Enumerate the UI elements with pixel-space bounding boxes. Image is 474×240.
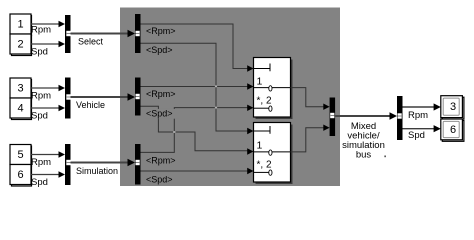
svg-text:<Rpm>: <Rpm>	[146, 155, 176, 165]
inport 4	[12, 100, 32, 120]
wire Vehicle.Rpm to switch1 input1	[141, 86, 248, 88]
svg-text:4: 4	[17, 102, 23, 114]
svg-text:Spd: Spd	[31, 111, 48, 122]
svg-text:1: 1	[257, 75, 263, 87]
svg-text:3: 3	[17, 82, 23, 94]
wire Spd to outport	[403, 128, 435, 130]
svg-text:*, 2: *, 2	[257, 160, 272, 171]
multiport switch 1 (Rpm)	[256, 60, 293, 120]
svg-text:6: 6	[17, 169, 23, 181]
inport 1	[12, 16, 32, 36]
wire Vehicle.Spd staircase to switch2 input1	[141, 106, 248, 151]
svg-text:<Rpm>: <Rpm>	[146, 26, 176, 36]
wire inport6 to bus creator	[31, 174, 59, 176]
svg-text:<Spd>: <Spd>	[146, 109, 173, 119]
inport 3	[12, 80, 32, 100]
wire switch2 output to final bus creator	[291, 128, 324, 152]
stray dot annotation	[384, 156, 386, 158]
wire Select.Spd to switch2 control	[141, 43, 248, 131]
svg-text:Spd: Spd	[31, 177, 48, 188]
svg-text:Spd: Spd	[408, 130, 425, 141]
bus wire Mixed vehicle/simulation	[335, 115, 390, 117]
wire inport5 to bus creator	[31, 154, 59, 156]
svg-text:Rpm: Rpm	[408, 110, 428, 121]
final bus creator	[330, 98, 336, 137]
label <Spd> (selector2)	[145, 109, 180, 119]
bus selector output	[397, 96, 403, 140]
wire inport1 to bus creator	[31, 23, 59, 25]
svg-text:3: 3	[450, 101, 456, 113]
wire inport2 to bus creator	[31, 43, 59, 45]
svg-text:Rpm: Rpm	[31, 25, 51, 36]
svg-text:Select: Select	[78, 36, 104, 46]
svg-text:5: 5	[17, 149, 23, 161]
svg-text:1: 1	[257, 140, 263, 152]
svg-text:Rpm: Rpm	[31, 157, 51, 168]
bus selector 1	[135, 14, 141, 53]
svg-text:*, 2: *, 2	[257, 95, 272, 106]
bus wire Simulation	[71, 162, 129, 164]
inport 2	[12, 36, 32, 56]
bus creator 3	[65, 144, 71, 185]
wire Select.Rpm to switch1 control	[141, 24, 248, 69]
svg-text:<Spd>: <Spd>	[146, 45, 173, 55]
bus selector 3	[135, 144, 141, 185]
bus selector 2	[135, 78, 141, 116]
svg-text:1: 1	[17, 18, 23, 30]
wire switch1 output to final bus creator	[291, 88, 324, 107]
outport 3	[442, 97, 464, 119]
multiport switch 2 (Spd)	[256, 125, 293, 185]
outport 6	[442, 121, 464, 142]
subsystem gray area	[120, 8, 340, 187]
wire Simulation.Spd to switch2 input2	[141, 170, 248, 172]
svg-text:6: 6	[450, 124, 456, 136]
wire Rpm to outport	[403, 106, 435, 108]
svg-text:Spd: Spd	[31, 47, 48, 58]
svg-text:2: 2	[17, 38, 23, 50]
wire crossing gaps	[215, 85, 217, 87]
inport 5	[12, 146, 32, 166]
bus creator 2	[65, 78, 71, 119]
bus wire Select	[71, 33, 129, 35]
wire inport3 to bus creator	[31, 87, 59, 89]
svg-text:Rpm: Rpm	[31, 91, 51, 102]
wire inport4 to bus creator	[31, 107, 59, 109]
wire Simulation.Rpm up to switch1 input2	[141, 108, 248, 153]
bus creator 1	[65, 15, 71, 53]
svg-text:Vehicle: Vehicle	[76, 100, 105, 110]
svg-text:bus: bus	[356, 150, 372, 161]
inport 6	[12, 166, 32, 186]
svg-text:<Rpm>: <Rpm>	[146, 89, 176, 99]
bus wire Vehicle	[71, 96, 129, 98]
svg-text:<Spd>: <Spd>	[146, 174, 173, 184]
svg-text:Simulation: Simulation	[76, 166, 118, 176]
